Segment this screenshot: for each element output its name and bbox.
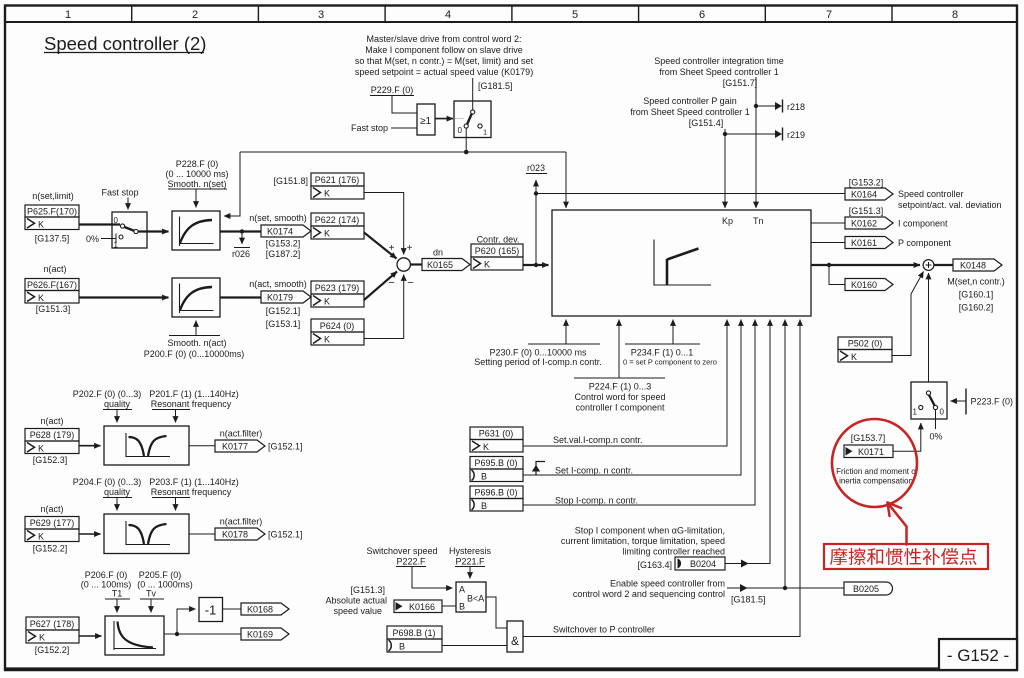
connector output K0161 [845, 237, 893, 249]
svg-text:0: 0 [458, 126, 463, 135]
node K0160 tap [827, 263, 831, 267]
connector output K0179 [261, 291, 311, 303]
note master/slave drive text [355, 34, 534, 77]
svg-text:[G151.7]: [G151.7] [723, 78, 758, 88]
svg-text:+: + [407, 243, 413, 254]
wire deviation to K0164 [536, 193, 845, 195]
connector input P627 (178) [26, 617, 79, 643]
svg-text:[G153.2]: [G153.2] [266, 239, 301, 249]
svg-text:K0171: K0171 [858, 447, 884, 457]
parameter P221 hysteresis label [449, 546, 492, 567]
svg-text:P component: P component [898, 238, 951, 248]
svg-text:P228.F (0): P228.F (0) [176, 159, 219, 169]
wire comparator to AND gate [486, 597, 507, 628]
svg-text:Switchover to P controller: Switchover to P controller [553, 625, 655, 635]
wire follow bus left branch to smoothing block [224, 152, 240, 216]
svg-text:Tn: Tn [753, 216, 764, 226]
svg-text:(0 ... 100ms): (0 ... 100ms) [81, 580, 132, 590]
wire follow bus right branch into controller block [565, 152, 567, 208]
wire summing point to K0165 [410, 263, 422, 265]
node r026 tap [240, 229, 244, 233]
svg-text:K0164: K0164 [851, 190, 877, 200]
svg-text:K: K [483, 442, 489, 452]
note stop I component text [561, 526, 725, 557]
connector input P695.B (0) [470, 457, 523, 482]
svg-text:K0165: K0165 [427, 260, 453, 270]
svg-text:8: 8 [952, 9, 958, 21]
svg-text:+: + [389, 243, 395, 254]
wire P221 into comparator top [469, 567, 471, 579]
parameter smooth n(act) label [144, 321, 245, 360]
svg-text:0%: 0% [86, 234, 99, 244]
label [G160.1] [G160.2] [959, 290, 994, 313]
node DT1 output [175, 632, 179, 636]
connector input K0166 [394, 600, 442, 613]
svg-text:P626.F(167): P626.F(167) [27, 280, 77, 290]
wire OR gate to switch S1 [435, 118, 453, 120]
wire quality into filter 2 [103, 498, 132, 511]
svg-text:1: 1 [913, 408, 918, 417]
wire Tn input into controller block [755, 77, 757, 208]
svg-text:Tv: Tv [146, 589, 156, 599]
label [G153.2] [G187.2] [266, 239, 301, 260]
connector input P625.F(170) [25, 205, 79, 230]
svg-text:0: 0 [940, 408, 945, 417]
wire switch S2 to smoothing block [138, 230, 169, 232]
wire K0160 tap [829, 265, 845, 285]
svg-text:Stop I component when αG-limit: Stop I component when αG-limitation, [575, 526, 725, 536]
svg-text:r026: r026 [232, 249, 250, 259]
svg-text:P620 (165): P620 (165) [475, 246, 520, 256]
svg-text:P695.B (0): P695.B (0) [474, 458, 517, 468]
svg-text:from Sheet Speed controller 1: from Sheet Speed controller 1 [659, 67, 779, 77]
svg-text:K0161: K0161 [851, 238, 877, 248]
svg-text:Absolute actual: Absolute actual [325, 596, 387, 606]
svg-text:P628 (179): P628 (179) [30, 430, 75, 440]
svg-text:Resonant frequency: Resonant frequency [151, 399, 232, 409]
red annotation box [824, 544, 988, 569]
svg-text:≥1: ≥1 [420, 116, 431, 127]
svg-text:K0166: K0166 [409, 602, 435, 612]
connector output K0165 [422, 259, 470, 271]
svg-text:2: 2 [192, 9, 198, 21]
svg-text:B<A: B<A [467, 594, 484, 604]
switch S3 friction compensation [911, 382, 947, 419]
svg-text:5: 5 [572, 9, 578, 21]
svg-text:−: − [407, 277, 413, 289]
svg-text:n(act, smooth): n(act, smooth) [249, 279, 307, 289]
svg-text:[G152.1]: [G152.1] [268, 530, 303, 540]
wire friction comp to torque sum [928, 273, 930, 382]
svg-text:-1: -1 [205, 603, 217, 618]
node r219 tap [723, 132, 727, 136]
svg-text:0%: 0% [929, 432, 942, 442]
wire T1 into DT1 block [105, 599, 130, 613]
svg-text:n(act): n(act) [43, 264, 66, 274]
svg-text:[G152.2]: [G152.2] [35, 645, 70, 655]
wire node to K0169 [177, 633, 241, 635]
monitor output r219 [725, 128, 805, 141]
wire filter 1 output [189, 445, 215, 447]
svg-text:Speed controller (2): Speed controller (2) [44, 33, 206, 54]
svg-text:[G151.3]: [G151.3] [350, 585, 385, 595]
arrow on B0204 wire [741, 560, 749, 568]
svg-text:K0168: K0168 [247, 605, 273, 615]
connector input P622 (174) [311, 213, 364, 239]
svg-text:Smooth. n(set): Smooth. n(set) [167, 179, 226, 189]
svg-text:K0174: K0174 [267, 227, 293, 237]
label [G152.1] [G153.1] [266, 306, 301, 329]
svg-text:Master/slave drive from contro: Master/slave drive from control word 2: [366, 34, 521, 44]
wire Tv into DT1 block [140, 599, 164, 613]
svg-text:P623 (179): P623 (179) [315, 283, 360, 293]
speed controller PI block [552, 210, 811, 316]
comparator B&lt;A [456, 582, 486, 612]
connector output K0174 [261, 225, 311, 237]
parameter P205 Tv label [137, 570, 193, 599]
wire set I-comp riser [523, 320, 741, 476]
svg-text:M(set,n contr.): M(set,n contr.) [947, 277, 1005, 287]
svg-text:Stop I-comp. n contr.: Stop I-comp. n contr. [555, 496, 638, 506]
wire inverter to K0168 [223, 608, 242, 610]
monitor output r023 [526, 163, 547, 193]
node r023 junction [534, 191, 538, 195]
connector input P620 (165) [471, 244, 523, 270]
svg-text:P224.F (1) 0...3: P224.F (1) 0...3 [589, 382, 652, 392]
svg-text:Control word for speed: Control word for speed [574, 392, 665, 402]
wire P234 into block bottom [625, 320, 700, 345]
svg-text:n(act.filter): n(act.filter) [220, 517, 263, 527]
smoothing block n(set) [172, 211, 220, 250]
parameter P222 switchover speed label [366, 546, 437, 567]
parameter P202 quality label [73, 389, 142, 409]
svg-text:[G151.3]: [G151.3] [36, 304, 71, 314]
wire P624 to summing point [364, 275, 404, 339]
connector output K0169 [241, 628, 289, 640]
svg-text:[G160.2]: [G160.2] [959, 303, 994, 313]
band-stop filter block 2 [104, 514, 189, 554]
svg-text:quality: quality [104, 487, 131, 497]
label friction and moment text [836, 467, 919, 486]
svg-text:Speed controller: Speed controller [898, 189, 964, 199]
red annotation chinese text [830, 548, 977, 565]
connector input P624 (0) [311, 319, 364, 345]
svg-text:K: K [851, 352, 857, 362]
parameter P224 label [574, 382, 665, 413]
svg-text:K: K [38, 220, 44, 230]
svg-text:r218: r218 [787, 102, 805, 112]
svg-text:[G153.7]: [G153.7] [851, 433, 886, 443]
svg-text:7: 7 [826, 9, 832, 21]
connector input P628 (179) [25, 429, 79, 454]
svg-text:P202.F (0) (0...3): P202.F (0) (0...3) [73, 389, 142, 399]
svg-text:P201.F (1) (1...140Hz): P201.F (1) (1...140Hz) [149, 389, 239, 399]
svg-text:Make I component follow on sla: Make I component follow on slave drive [365, 45, 523, 55]
svg-text:P234.F (1) 0...1: P234.F (1) 0...1 [631, 348, 694, 358]
svg-text:6: 6 [699, 9, 705, 21]
wire P623 to summing point [364, 272, 397, 301]
switch S1 master/slave [454, 101, 491, 138]
wire set value I-comp riser [523, 320, 727, 447]
svg-text:limiting controller reached: limiting controller reached [622, 547, 725, 557]
svg-text:speed value: speed value [333, 606, 382, 616]
wire torque sum to K0148 [934, 264, 953, 266]
band-stop filter block 1 [104, 426, 189, 465]
red circle annotation [832, 419, 917, 507]
wire 0% to switch S2 [101, 234, 116, 244]
svg-text:P223.F (0): P223.F (0) [971, 397, 1014, 407]
svg-text:Friction and moment of: Friction and moment of [836, 467, 919, 476]
svg-text:K0169: K0169 [247, 630, 273, 640]
svg-text:[G152.2]: [G152.2] [33, 544, 68, 554]
svg-text:P230.F (0) 0...10000 ms: P230.F (0) 0...10000 ms [489, 348, 587, 358]
connector input P629 (177) [25, 517, 79, 542]
wire P component [811, 242, 845, 244]
svg-text:K0179: K0179 [267, 293, 293, 303]
svg-text:P696.B (0): P696.B (0) [474, 488, 517, 498]
node r218 tap [754, 104, 758, 108]
monitor output r218 [756, 100, 805, 113]
svg-text:Fast stop: Fast stop [101, 188, 138, 198]
wire enable riser [727, 320, 844, 589]
wire K0166 to comparator B [442, 605, 456, 607]
label absolute actual speed value [325, 585, 387, 616]
svg-text:P624 (0): P624 (0) [320, 321, 355, 331]
svg-text:P200.F (0) (0...10000ms): P200.F (0) (0...10000ms) [144, 349, 245, 359]
smoothing block n(act) [172, 278, 220, 317]
wire Fast stop to OR gate [391, 127, 417, 129]
svg-text:K: K [38, 293, 44, 303]
svg-text:B0205: B0205 [853, 584, 879, 594]
svg-text:P625.F(170): P625.F(170) [27, 207, 77, 217]
svg-text:P203.F (1) (1...140Hz): P203.F (1) (1...140Hz) [149, 477, 239, 487]
svg-text:P222.F: P222.F [396, 557, 426, 567]
svg-text:n(act): n(act) [40, 416, 63, 426]
svg-text:4: 4 [445, 9, 451, 21]
svg-text:P622 (174): P622 (174) [315, 215, 360, 225]
wire node to inverter [177, 609, 196, 634]
wire P223 control into switch S3 [951, 389, 967, 415]
svg-text:Set.val.I-comp.n contr.: Set.val.I-comp.n contr. [553, 435, 643, 445]
svg-text:P629 (177): P629 (177) [30, 518, 75, 528]
wire P628 to filter 1 [79, 445, 101, 447]
connector output K0162 [845, 217, 893, 229]
wire control G181.5 into switch S1 [472, 78, 474, 110]
svg-text:K: K [324, 189, 330, 199]
title Speed controller (2) [44, 33, 206, 54]
AND gate [507, 621, 523, 652]
monitor output r026 [232, 232, 250, 260]
DT1 derivative block [105, 616, 164, 655]
connector output K0164 [845, 188, 893, 200]
summing point dn [397, 258, 410, 271]
wire P625 to switch S2 [79, 223, 120, 225]
svg-text:n(set,limit): n(set,limit) [32, 191, 74, 201]
binector input B0204 [675, 557, 725, 570]
wire stop I-comp riser [523, 320, 755, 506]
svg-text:A: A [459, 585, 465, 595]
svg-text:quality: quality [104, 399, 131, 409]
svg-text:B: B [481, 472, 487, 482]
connector input K0171 [844, 445, 893, 458]
parameter P201 resonant frequency label [149, 389, 239, 409]
wire P626 to smoothing block n(act) [79, 296, 169, 298]
wire P629 to filter 2 [79, 533, 101, 535]
svg-text:[G151.4]: [G151.4] [689, 118, 724, 128]
node dn bold junction [534, 263, 538, 267]
switch S2 fast stop [112, 212, 147, 250]
parameter P204 quality label [73, 477, 142, 497]
svg-text:K: K [484, 260, 490, 270]
svg-text:Speed controller P gain: Speed controller P gain [643, 96, 736, 106]
wire P229 to OR gate [392, 96, 417, 114]
svg-text:Speed controller integration t: Speed controller integration time [654, 56, 784, 66]
wire switch S1 down to node [465, 128, 467, 152]
svg-text:K0160: K0160 [851, 280, 877, 290]
svg-text:- G152 -: - G152 - [947, 646, 1009, 665]
svg-text:K0148: K0148 [960, 261, 986, 271]
svg-text:0: 0 [114, 216, 119, 225]
connector output K0178 [215, 528, 265, 540]
wire P502 to torque sum [892, 272, 924, 356]
svg-text:T1: T1 [112, 589, 123, 599]
svg-text:P206.F (0): P206.F (0) [85, 570, 128, 580]
note speed controller integration time [654, 56, 784, 88]
svg-text:[G163.4]: [G163.4] [637, 560, 672, 570]
wire P621 to summing point [364, 193, 404, 255]
svg-text:[G181.5]: [G181.5] [478, 81, 513, 91]
inverter -1 block [199, 598, 223, 622]
svg-text:(0 ... 10000 ms): (0 ... 10000 ms) [165, 169, 228, 179]
wire Kp input into controller block [724, 129, 726, 208]
wire B0204 riser [725, 320, 770, 564]
wire I component [811, 222, 845, 224]
node enable junction [783, 586, 787, 590]
svg-text:[G151.3]: [G151.3] [849, 206, 884, 216]
svg-text:speed setpoint = actual speed: speed setpoint = actual speed value (K01… [355, 67, 533, 77]
connector input P626.F(167) [25, 279, 79, 304]
connector output K0148 [953, 259, 1002, 271]
connector output K0177 [215, 440, 265, 452]
footer sheet label G152 [939, 639, 1017, 670]
summing point torque [923, 260, 934, 271]
svg-text:Hysteresis: Hysteresis [449, 546, 492, 556]
wire P228 into smoothing block [168, 189, 227, 208]
wire controller output to torque sum [811, 264, 920, 266]
svg-text:[G181.5]: [G181.5] [731, 595, 766, 605]
svg-text:r023: r023 [527, 163, 545, 173]
svg-text:so that M(set, n contr.) = M(s: so that M(set, n contr.) = M(set, limit)… [355, 56, 534, 66]
connector input P502 (0) [838, 337, 892, 362]
svg-text:inertia compensation: inertia compensation [839, 477, 913, 486]
svg-text:[G153.1]: [G153.1] [266, 319, 301, 329]
svg-text:B: B [459, 602, 465, 612]
svg-text:[G187.2]: [G187.2] [266, 249, 301, 259]
svg-text:current limitation, torque lim: current limitation, torque limitation, s… [561, 536, 725, 546]
parameter P229.F (0) [370, 85, 414, 96]
svg-text:I component: I component [898, 219, 948, 229]
connector input P621 (176) [311, 173, 364, 199]
wire follow bus horizontal [240, 151, 566, 153]
svg-text:3: 3 [318, 9, 324, 21]
svg-text:Resonant frequency: Resonant frequency [151, 487, 232, 497]
connector input P623 (179) [311, 281, 364, 307]
node on follow wire [464, 150, 469, 155]
parameter P203 resonant frequency label [149, 477, 239, 497]
wire switchover to P riser [523, 320, 800, 637]
symbol edge trigger [532, 462, 545, 476]
wire P222 to comparator A [412, 567, 453, 589]
svg-text:[G152.1]: [G152.1] [268, 442, 303, 452]
svg-text:controller I component: controller I component [575, 403, 665, 413]
svg-text:P221.F: P221.F [455, 557, 485, 567]
svg-text:Switchover speed: Switchover speed [366, 546, 437, 556]
svg-text:P229.F (0): P229.F (0) [371, 85, 414, 95]
wire P622 to summing point [364, 233, 397, 259]
wire P627 to DT1 block [79, 635, 102, 637]
svg-text:P621 (176): P621 (176) [315, 175, 360, 185]
note speed controller P gain [630, 96, 750, 128]
svg-text:P205.F (0): P205.F (0) [139, 570, 182, 580]
wire smoothing n(act) output [220, 296, 261, 298]
wire P230 into block bottom [528, 320, 600, 345]
parameter P230 label [474, 348, 602, 368]
wire r023 down to dn line [535, 194, 537, 266]
svg-text:P631 (0): P631 (0) [479, 429, 514, 439]
svg-text:K: K [38, 532, 44, 542]
wire quality into filter 1 [103, 410, 132, 423]
svg-text:K: K [38, 444, 44, 454]
svg-text:setpoint/act. val. deviation: setpoint/act. val. deviation [898, 200, 1002, 210]
svg-text:from Sheet Speed controller 1: from Sheet Speed controller 1 [630, 107, 750, 117]
svg-text:Set I-comp. n contr.: Set I-comp. n contr. [555, 466, 633, 476]
connector output K0160 [845, 279, 893, 291]
svg-text:n(act.filter): n(act.filter) [220, 429, 263, 439]
svg-text:Enable speed controller from: Enable speed controller from [610, 579, 725, 589]
svg-text:n(act): n(act) [40, 504, 63, 514]
svg-text:[G137.5]: [G137.5] [35, 234, 70, 244]
parameter P206 T1 label [81, 570, 132, 599]
svg-text:r219: r219 [787, 130, 805, 140]
svg-text:n(set, smooth): n(set, smooth) [249, 213, 307, 223]
svg-text:K0177: K0177 [222, 442, 248, 452]
svg-text:Setting period of I-comp.n con: Setting period of I-comp.n contr. [474, 357, 602, 367]
svg-text:P627 (178): P627 (178) [30, 619, 75, 629]
parameter P234 label [623, 348, 717, 367]
svg-text:[G152.3]: [G152.3] [33, 455, 68, 465]
svg-text:P502 (0): P502 (0) [848, 339, 883, 349]
binector output B0205 [844, 582, 893, 595]
svg-text:Fast stop: Fast stop [351, 123, 388, 133]
wire resonant frequency into filter 2 [152, 498, 190, 511]
wire resonant frequency into filter 1 [152, 410, 190, 423]
wire K0171 into switch S3 [893, 423, 921, 451]
svg-text:P204.F (0) (0...3): P204.F (0) (0...3) [73, 477, 142, 487]
svg-text:1: 1 [483, 128, 487, 137]
svg-text:control word 2 and sequencing: control word 2 and sequencing control [573, 589, 725, 599]
wire P224 into block bottom [574, 320, 665, 379]
wire DT1 output to node [164, 633, 177, 635]
label speed controller deviation [898, 189, 1002, 210]
svg-text:K0162: K0162 [851, 219, 877, 229]
svg-text:[G151.8]: [G151.8] [273, 176, 308, 186]
wire smoothing output with r026 tap [220, 230, 261, 232]
svg-text:1: 1 [65, 9, 71, 21]
svg-text:[G153.2]: [G153.2] [849, 178, 884, 188]
wire filter 2 output [189, 533, 215, 535]
wire fast stop into switch S2 [127, 198, 129, 210]
svg-text:[G160.1]: [G160.1] [959, 290, 994, 300]
